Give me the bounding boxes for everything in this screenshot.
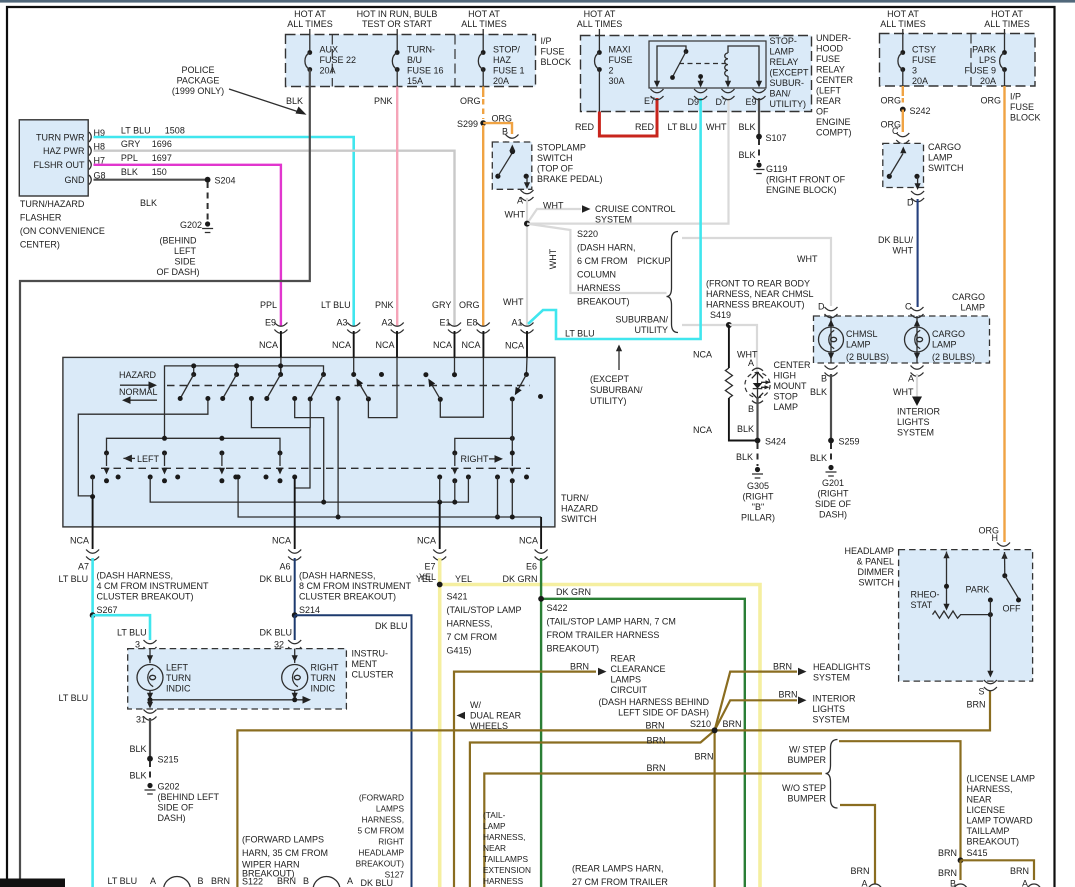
svg-text:WHT: WHT (706, 122, 727, 132)
fuse MAXI FUSE 2 (595, 50, 602, 72)
svg-text:BRN: BRN (277, 876, 296, 886)
arrow to rear clearance lamps circuit (598, 668, 607, 676)
svg-text:BREAKOUT): BREAKOUT) (547, 644, 600, 654)
connector A (cargo) (911, 366, 924, 377)
coil to D7 pin (727, 76, 729, 81)
svg-text:BREAKOUT): BREAKOUT) (356, 859, 405, 869)
wire BRN rear clearance stub (454, 672, 596, 887)
svg-text:NEAR: NEAR (967, 795, 993, 805)
svg-text:MENT: MENT (352, 659, 378, 669)
svg-text:ENGINE: ENGINE (816, 117, 851, 127)
svg-text:FUSE: FUSE (816, 54, 840, 64)
svg-text:S424: S424 (765, 437, 786, 447)
contact 6 (arrow arm) (423, 372, 428, 377)
contact 4 (321, 372, 326, 377)
wire WHT brace to S419 (682, 324, 729, 326)
svg-text:(RIGHT: (RIGHT (743, 492, 774, 502)
dashed hazard line (167, 385, 530, 387)
connector D (825, 307, 838, 318)
svg-text:HARNESS,: HARNESS, (967, 784, 1013, 794)
license lamp mid (954, 884, 968, 887)
svg-text:SUBURBAN/: SUBURBAN/ (615, 315, 668, 325)
svg-text:E8: E8 (467, 318, 478, 328)
fuse TURN-B/U FUSE 16 (392, 50, 399, 72)
svg-text:FUSE 9: FUSE 9 (964, 66, 996, 76)
isolated terminal dot (379, 372, 384, 377)
svg-text:A: A (748, 358, 754, 368)
wire DK GRN S422 down (540, 599, 542, 887)
svg-text:BRN: BRN (851, 866, 870, 876)
wire DK BLU S214 right and down (295, 615, 412, 887)
wire into CTSY fuse (902, 29, 904, 52)
wire LT BLU A7 to S267 (91, 558, 94, 615)
svg-text:OF: OF (816, 107, 829, 117)
black corner block (0, 879, 65, 887)
fuse stub CTSY (902, 70, 904, 87)
svg-text:1697: 1697 (152, 153, 172, 163)
wire BLK 31 to S215 (149, 718, 151, 759)
svg-text:BRN: BRN (211, 876, 230, 886)
svg-text:BRN: BRN (938, 848, 957, 858)
svg-text:RHEO-: RHEO- (911, 590, 940, 600)
svg-text:SWITCH: SWITCH (928, 163, 964, 173)
svg-text:BLK: BLK (121, 167, 138, 177)
front marker lamp left (164, 877, 191, 887)
wire BRN w/o-step brace line (484, 774, 822, 887)
svg-text:LAMP: LAMP (770, 47, 795, 57)
svg-text:NCA: NCA (375, 340, 394, 350)
svg-text:INDIC: INDIC (311, 684, 336, 694)
svg-text:BRN: BRN (723, 719, 742, 729)
rheostat branch (943, 552, 949, 559)
wire YEL S421 right then down (440, 585, 760, 887)
wire BRN S210 to interior lights arrow (715, 700, 797, 730)
connector C (cargo switch) (896, 133, 909, 144)
svg-text:& PANEL: & PANEL (857, 557, 894, 567)
svg-text:(DASH HARNESS,: (DASH HARNESS, (97, 571, 174, 581)
splice S424 (755, 438, 761, 444)
contact 5 (arrow arm) (351, 372, 356, 377)
svg-text:G201: G201 (822, 478, 844, 488)
wire LT BLU S267 to cluster pin 3 (93, 615, 150, 640)
divider between CTSY and PARK (970, 34, 972, 87)
svg-text:REAR: REAR (611, 654, 637, 664)
svg-text:(1999 ONLY): (1999 ONLY) (172, 86, 224, 96)
svg-text:SWITCH: SWITCH (561, 514, 597, 524)
svg-text:LEFT: LEFT (137, 454, 160, 464)
svg-text:WHT: WHT (543, 201, 564, 211)
svg-text:3: 3 (912, 66, 917, 76)
svg-text:DK GRN: DK GRN (556, 587, 591, 597)
svg-text:LAMPS: LAMPS (611, 675, 642, 685)
LEFT rail (107, 438, 281, 453)
svg-text:S215: S215 (158, 755, 179, 765)
wire DK BLU S214 to cluster pin 32 (294, 615, 296, 640)
terminal dot fed by E1 (452, 372, 457, 377)
wire BLK S424 to G305 (dashed) (757, 443, 759, 466)
svg-text:27 CM FROM TRAILER: 27 CM FROM TRAILER (572, 877, 668, 887)
svg-text:LT BLU: LT BLU (59, 693, 89, 703)
brace (pickup/suburban split) (667, 232, 679, 333)
svg-text:4 CM FROM INSTRUMENT: 4 CM FROM INSTRUMENT (97, 581, 209, 591)
wire into TURN-B/U fuse (396, 29, 398, 52)
svg-text:30A: 30A (609, 76, 625, 86)
svg-text:UTILITY): UTILITY) (770, 99, 807, 109)
svg-text:PILLAR): PILLAR) (741, 513, 775, 523)
svg-text:TURN: TURN (166, 673, 191, 683)
svg-text:COMPT): COMPT) (816, 128, 852, 138)
I/P fuse block box (286, 35, 536, 87)
svg-text:BLK: BLK (140, 198, 157, 208)
contact 7 (arrow arm, arrow at bottom) (524, 372, 529, 377)
svg-text:LAMP: LAMP (932, 340, 957, 350)
svg-text:6 CM FROM: 6 CM FROM (577, 256, 628, 266)
svg-text:SWITCH: SWITCH (537, 153, 573, 163)
splice S210 (712, 727, 718, 733)
license lamp left (868, 884, 882, 887)
svg-text:BRN: BRN (647, 736, 666, 746)
svg-text:E7: E7 (644, 96, 655, 106)
svg-text:WHT: WHT (893, 387, 914, 397)
svg-text:LEFT: LEFT (174, 246, 197, 256)
A6 exit vertical (294, 477, 296, 527)
svg-text:PNK: PNK (375, 300, 394, 310)
splice S267 (90, 612, 96, 618)
svg-text:LT BLU: LT BLU (321, 300, 351, 310)
svg-text:BLK: BLK (130, 771, 147, 781)
pin arcs on flasher (89, 132, 91, 185)
svg-text:B: B (198, 876, 204, 886)
turn/hazard switch box (63, 357, 555, 527)
connector B (CHMSL) (825, 366, 838, 377)
svg-text:NCA: NCA (519, 536, 538, 546)
svg-text:CLUSTER BREAKOUT): CLUSTER BREAKOUT) (299, 592, 396, 602)
internal bus A (165, 366, 324, 438)
svg-text:S421: S421 (447, 592, 468, 602)
svg-text:BRAKE PEDAL): BRAKE PEDAL) (537, 174, 603, 184)
contact 2 (234, 372, 239, 377)
wire YEL S421 down to front lamps (438, 585, 442, 887)
(EXCEPT SUBURBAN/UTILITY) note + arrow (616, 345, 622, 352)
svg-text:FLASHER: FLASHER (20, 213, 62, 223)
svg-text:ALL TIMES: ALL TIMES (461, 19, 507, 29)
LEFT legend (123, 455, 131, 463)
cargo lamp (916, 316, 918, 363)
svg-text:A7: A7 (78, 562, 89, 572)
wire ORG CTSY fuse to S242 (part dashed) (902, 86, 904, 96)
wire BRN brace (w/o step) to left license lamp (840, 805, 875, 884)
center high mount stop lamp (LED) (752, 368, 763, 371)
svg-text:LAMP: LAMP (928, 153, 953, 163)
svg-text:(LEFT: (LEFT (816, 86, 842, 96)
wire PPL 1697 (H7 to E9) (94, 165, 281, 326)
svg-text:S419: S419 (710, 310, 731, 320)
svg-text:(RIGHT: (RIGHT (818, 489, 849, 499)
svg-text:(BEHIND LEFT: (BEHIND LEFT (158, 792, 220, 802)
left rail drop 2 (161, 451, 167, 484)
svg-text:LT BLU: LT BLU (117, 628, 147, 638)
dashed left/right line (101, 467, 530, 469)
svg-text:LT BLU: LT BLU (59, 574, 89, 584)
svg-text:SWITCH: SWITCH (859, 578, 895, 588)
svg-text:DK BLU/: DK BLU/ (878, 235, 914, 245)
svg-text:TURN-: TURN- (407, 45, 435, 55)
wire NCA S419 through resistor (728, 325, 730, 368)
svg-text:SYSTEM: SYSTEM (813, 715, 850, 725)
svg-text:(RIGHT FRONT OF: (RIGHT FRONT OF (766, 175, 846, 185)
svg-text:S415: S415 (967, 848, 988, 858)
svg-text:HARNESS: HARNESS (483, 876, 524, 886)
svg-text:G119: G119 (766, 164, 787, 174)
svg-text:PARK: PARK (972, 45, 996, 55)
svg-text:HOT AT: HOT AT (887, 9, 919, 19)
arrow to cruise control (582, 205, 591, 213)
svg-text:WHT: WHT (797, 254, 818, 264)
svg-text:31: 31 (136, 715, 146, 725)
CTSY/PARK fuse box (880, 34, 1036, 87)
rheostat resistor (933, 611, 991, 618)
svg-text:NORMAL: NORMAL (119, 387, 158, 397)
svg-text:BLK: BLK (737, 424, 754, 434)
divider after AUX cell (331, 35, 333, 87)
svg-text:CENTER: CENTER (774, 360, 812, 370)
step bumper brace (826, 740, 838, 809)
svg-text:E7: E7 (425, 562, 436, 572)
svg-text:NCA: NCA (461, 340, 480, 350)
svg-text:STOP/: STOP/ (493, 45, 520, 55)
svg-text:A: A (862, 879, 868, 887)
svg-text:8 CM FROM INSTRUMENT: 8 CM FROM INSTRUMENT (299, 581, 411, 591)
svg-text:CIRCUIT: CIRCUIT (611, 685, 648, 695)
svg-text:WHT: WHT (505, 210, 526, 220)
police package arrow (229, 89, 302, 113)
svg-text:HOT AT: HOT AT (991, 9, 1023, 19)
splice S421 (437, 582, 443, 588)
svg-text:(DASH HARNESS BEHIND: (DASH HARNESS BEHIND (598, 697, 709, 707)
plain contact dots row (90, 475, 529, 480)
svg-text:RELAY: RELAY (770, 57, 799, 67)
splice S204 (205, 177, 211, 183)
D9 stub (700, 77, 702, 81)
svg-text:TURN/HAZARD: TURN/HAZARD (20, 199, 85, 209)
svg-text:(FORWARD LAMPS: (FORWARD LAMPS (242, 835, 324, 845)
svg-text:LT BLU: LT BLU (121, 126, 151, 136)
svg-text:BLK: BLK (286, 96, 303, 106)
E6 exit (540, 517, 542, 527)
NCA wire A3 into box (353, 331, 355, 357)
svg-text:OFF: OFF (1003, 604, 1021, 614)
instrument cluster box (128, 649, 347, 709)
svg-text:CHMSL: CHMSL (846, 329, 878, 339)
svg-text:(FORWARD: (FORWARD (359, 793, 404, 803)
wire WHT junction to cruise arrow (527, 209, 581, 224)
C4 drop to A6 feed (309, 399, 311, 428)
wire YEL E7 to S421 (438, 558, 442, 585)
svg-text:SIDE: SIDE (174, 257, 195, 267)
svg-text:SYSTEM: SYSTEM (897, 428, 934, 438)
svg-text:A: A (908, 374, 914, 384)
svg-text:REAR: REAR (816, 96, 842, 106)
svg-text:HARNESS, NEAR CHMSL: HARNESS, NEAR CHMSL (706, 289, 814, 299)
svg-text:NEAR: NEAR (483, 843, 506, 853)
svg-text:BLK: BLK (739, 150, 756, 160)
svg-text:RED: RED (575, 122, 595, 132)
svg-text:S422: S422 (547, 603, 568, 613)
A7 feed wire (78, 399, 208, 496)
svg-text:DK BLU: DK BLU (375, 621, 408, 631)
svg-text:W/ STEP: W/ STEP (789, 745, 826, 755)
connector H (997, 543, 1010, 554)
svg-text:SYSTEM: SYSTEM (813, 673, 850, 683)
contact 3 (278, 372, 283, 377)
svg-text:ORG: ORG (881, 96, 902, 106)
wire BLK CHMSL B to S259 (830, 374, 832, 441)
svg-text:DK BLU: DK BLU (260, 628, 293, 638)
svg-text:CENTER: CENTER (816, 75, 854, 85)
S output wire (989, 600, 991, 673)
wire into STOP/HAZ fuse (482, 29, 484, 52)
svg-text:STAT: STAT (911, 600, 933, 610)
svg-text:GND: GND (65, 175, 86, 185)
wire BRN main S210 run (left to right margin) (237, 691, 990, 887)
svg-text:HEADLAMP: HEADLAMP (358, 848, 404, 858)
svg-text:LT BLU: LT BLU (565, 329, 595, 339)
svg-text:HARNESS,: HARNESS, (447, 619, 493, 629)
left rail drop 3 (219, 451, 225, 484)
svg-text:SIDE OF: SIDE OF (158, 803, 195, 813)
wire WHT S419 to CHMSL lamp A (729, 325, 757, 372)
top pin connectors (274, 323, 287, 334)
left rail drop 4 (277, 451, 283, 484)
splice S422 (538, 596, 544, 602)
svg-text:INTERIOR: INTERIOR (813, 694, 857, 704)
svg-text:LAMP: LAMP (846, 340, 871, 350)
svg-text:NCA: NCA (332, 340, 351, 350)
relay internal: E7 rail and contact (657, 46, 686, 81)
wire DK BLU/WHT switch D to cargo lamp C (917, 199, 919, 307)
svg-text:HAZARD: HAZARD (561, 504, 599, 514)
svg-text:DK BLU: DK BLU (260, 574, 293, 584)
svg-text:FLSHR OUT: FLSHR OUT (33, 160, 85, 170)
relay dashed actuator line (679, 63, 726, 65)
splice S259 (828, 438, 834, 444)
right turn indicator lamp (294, 649, 296, 663)
svg-text:HARNESS: HARNESS (577, 283, 621, 293)
wire below MAXI fuse (598, 70, 600, 113)
wire WHT junction to relay D7 (527, 98, 729, 224)
wire BRN S415 right to lamp A (961, 860, 1035, 880)
svg-text:A: A (517, 196, 523, 206)
svg-text:RIGHT: RIGHT (378, 837, 404, 847)
ground G305 (752, 467, 763, 478)
svg-text:1508: 1508 (165, 126, 185, 136)
svg-text:I/P: I/P (541, 36, 552, 46)
ground G201 (826, 465, 837, 476)
cargo lamp switch box (883, 143, 924, 187)
NCA wire A2 into box (396, 331, 398, 357)
splice S242 (900, 107, 906, 113)
svg-text:ALL TIMES: ALL TIMES (287, 19, 333, 29)
wire WHT brace to CHMSL D (682, 238, 831, 306)
fuse PARK LPS FUSE 9 (1000, 50, 1007, 72)
switch terminal D (914, 174, 919, 179)
svg-text:UNDER-: UNDER- (816, 33, 851, 43)
wire BRN S210 to headlights arrow (715, 672, 797, 731)
svg-text:HOT AT: HOT AT (294, 9, 326, 19)
svg-text:GRY: GRY (432, 300, 451, 310)
svg-text:BRN: BRN (938, 868, 957, 878)
svg-text:20A: 20A (980, 76, 996, 86)
wire BLK S107 to G119 (dashed) (758, 139, 760, 162)
svg-text:NCA: NCA (505, 341, 524, 351)
svg-text:LAMP TOWARD: LAMP TOWARD (967, 816, 1034, 826)
svg-text:(DASH HARN,: (DASH HARN, (577, 243, 636, 253)
wire ORG S299 to stoplamp switch B (483, 123, 512, 134)
svg-text:DASH): DASH) (819, 510, 847, 520)
wire WHT junction down to A1 (526, 224, 528, 326)
NCA wire A1 into box (526, 331, 528, 357)
wire LT BLU from relay D9 (528, 98, 701, 339)
wire into MAXI fuse (598, 29, 600, 52)
svg-text:W/O STEP: W/O STEP (782, 783, 826, 793)
wire BRN S415 down to lamp B (959, 860, 961, 880)
svg-text:YEL: YEL (419, 572, 436, 582)
svg-text:SIDE OF: SIDE OF (815, 499, 852, 509)
svg-text:LICENSE: LICENSE (967, 805, 1006, 815)
svg-text:CARGO: CARGO (952, 292, 985, 302)
svg-text:"B": "B" (752, 502, 764, 512)
svg-text:NCA: NCA (272, 536, 291, 546)
svg-text:DASH): DASH) (158, 813, 186, 823)
svg-text:LPS: LPS (979, 55, 996, 65)
wire BLK S215 to G202 (dashed) (149, 761, 151, 782)
svg-text:NCA: NCA (417, 536, 436, 546)
svg-text:LIGHTS: LIGHTS (813, 704, 846, 714)
connector B on stoplamp switch (506, 135, 519, 146)
svg-text:A: A (1022, 879, 1028, 887)
right rail drop 1 (452, 451, 458, 503)
svg-text:CLUSTER BREAKOUT): CLUSTER BREAKOUT) (97, 592, 194, 602)
svg-text:BLOCK: BLOCK (541, 57, 572, 67)
svg-text:S259: S259 (839, 437, 860, 447)
svg-text:BLK: BLK (739, 122, 756, 132)
svg-text:D: D (818, 302, 825, 312)
svg-text:S204: S204 (215, 176, 236, 186)
svg-text:INTERIOR: INTERIOR (897, 407, 941, 417)
svg-text:S: S (979, 687, 985, 697)
svg-text:1696: 1696 (152, 139, 172, 149)
svg-text:UTILITY: UTILITY (634, 325, 668, 335)
svg-text:BLK: BLK (736, 452, 753, 462)
svg-text:MAXI: MAXI (609, 45, 631, 55)
svg-text:B/U: B/U (407, 55, 422, 65)
fuse stub PARK LPS (1004, 70, 1006, 87)
svg-text:S242: S242 (910, 106, 931, 116)
svg-text:CTSY: CTSY (912, 45, 936, 55)
wire ORG S299 down to E8 (482, 125, 484, 326)
svg-text:ORG: ORG (492, 114, 513, 124)
H3 feed jog from terminal (295, 399, 324, 503)
svg-text:COLUMN: COLUMN (577, 270, 616, 280)
svg-text:LT BLU: LT BLU (108, 876, 138, 886)
svg-text:OF DASH): OF DASH) (156, 267, 199, 277)
svg-text:CLUSTER: CLUSTER (352, 670, 395, 680)
connector 32 (288, 640, 301, 651)
dot 208 handled, A7 exit vertical (92, 477, 94, 497)
A6 feed wire (251, 399, 310, 489)
svg-text:PNK: PNK (374, 96, 393, 106)
svg-text:(ON CONVENIENCE: (ON CONVENIENCE (20, 226, 105, 236)
